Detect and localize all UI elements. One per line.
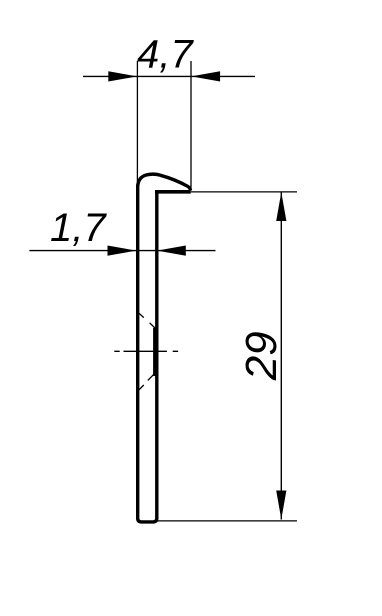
centerline dash-dot [114,350,178,352]
extension line left of 4,7 [136,61,138,184]
arrowhead 1,7 right [157,246,186,256]
dimension line 29 [280,192,282,520]
extension line bottom of 29 [156,520,297,522]
dimension line 1,7 [29,250,215,252]
profile left web line [138,185,157,522]
dimension line 4,7 [83,75,255,77]
extension line right of 4,7 [190,61,192,188]
profile top lip curve [138,174,191,190]
extension line top of 29 [191,191,297,193]
svg-text:29: 29 [237,331,286,381]
break mark upper diagonal [139,313,155,328]
svg-text:4,7: 4,7 [137,33,194,77]
arrowhead 4,7 right [191,71,220,81]
profile web break doubled segment [153,328,156,376]
svg-text:1,7: 1,7 [50,206,107,250]
arrowhead 29 top [276,192,286,221]
break mark lower diagonal [139,373,155,390]
arrowhead 1,7 left [108,246,137,256]
arrowhead 4,7 left [108,71,137,81]
arrowhead 29 bottom [276,491,286,520]
profile flange underside line [155,190,191,194]
